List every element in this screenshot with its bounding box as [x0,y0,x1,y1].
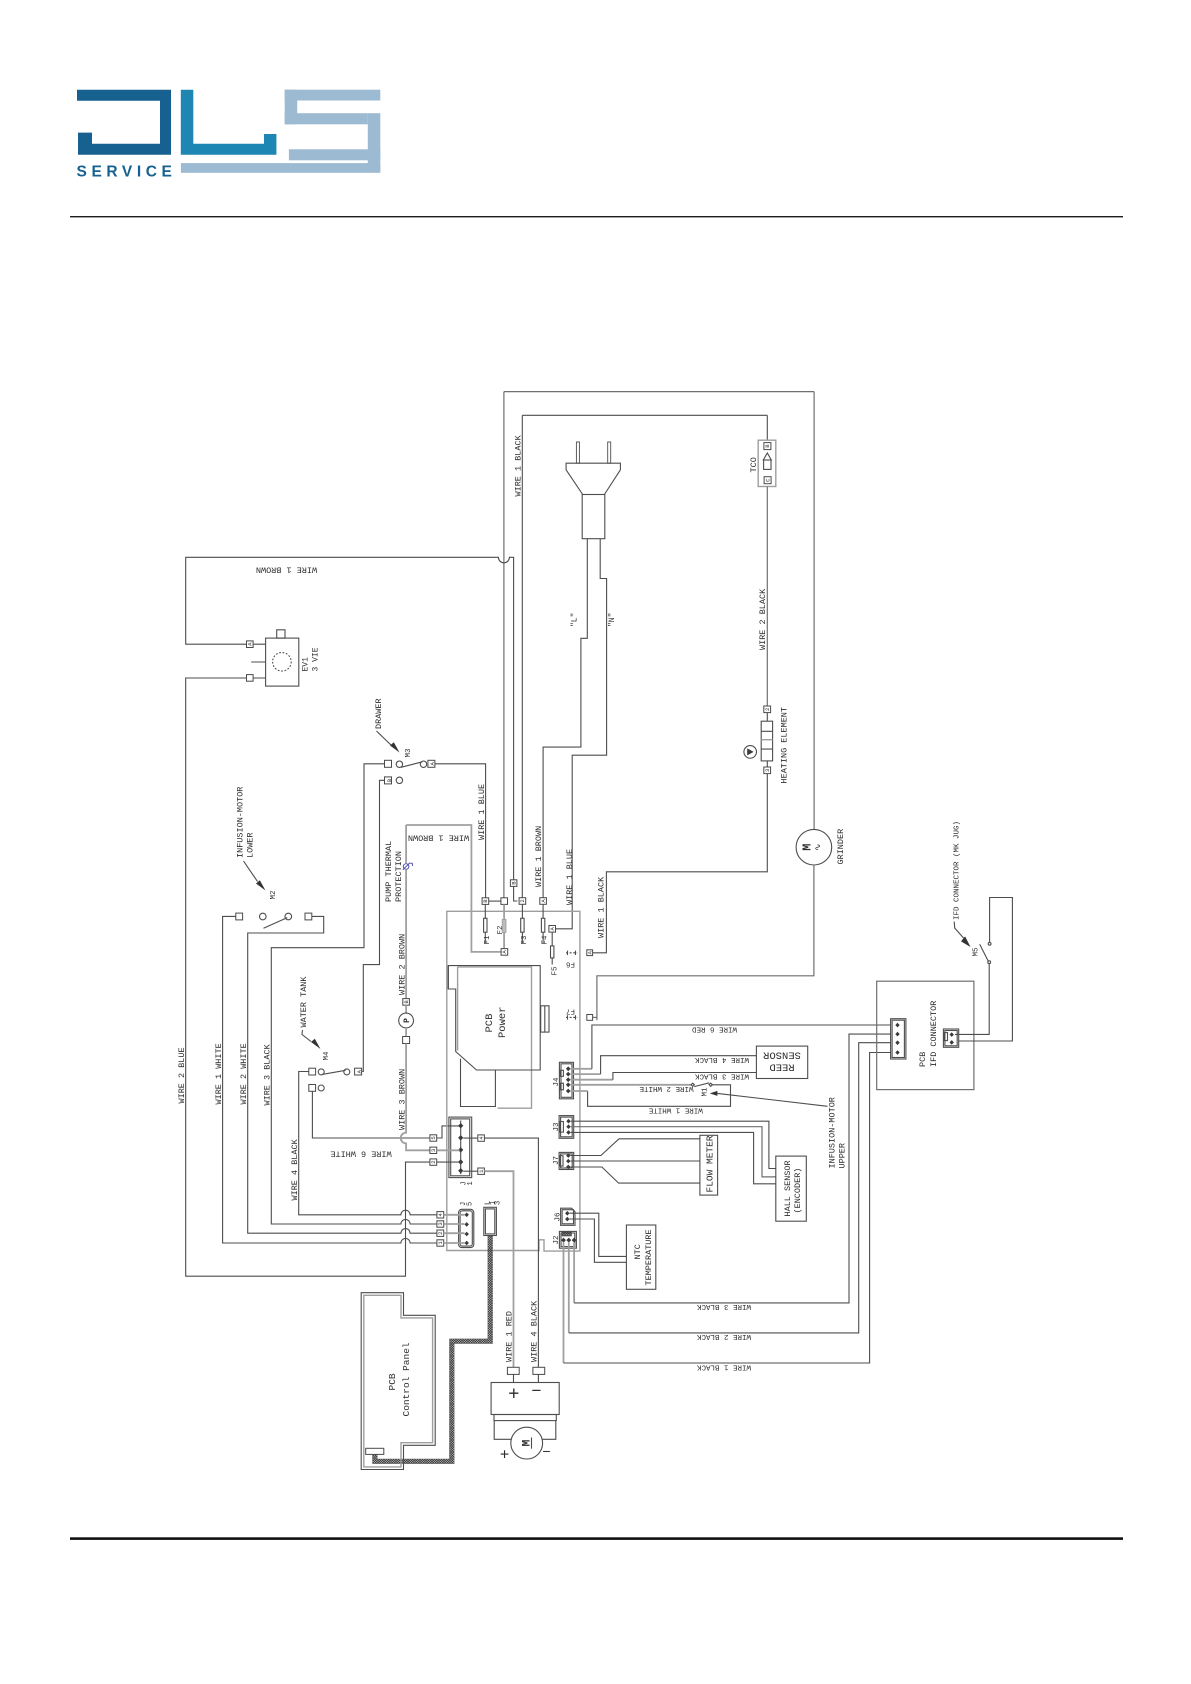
DLS logo glyph D [77,90,171,155]
svg-text:FLOW METER: FLOW METER [704,1135,715,1192]
svg-text:J7: J7 [553,1156,561,1165]
svg-text:WIRE 6 WHITE: WIRE 6 WHITE [330,1149,391,1159]
connector J2 [553,1231,577,1248]
fuse F5 [551,932,553,964]
svg-text:3: 3 [430,1149,437,1152]
svg-text:(ENCODER): (ENCODER) [793,1168,803,1214]
svg-text:WIRE 4 BLACK: WIRE 4 BLACK [694,1055,749,1063]
svg-text:WIRE 1 BROWN: WIRE 1 BROWN [256,565,317,575]
DLS logo glyph L [181,90,277,155]
terminal B above pump [403,999,410,1006]
svg-text:WIRE 1 BLACK: WIRE 1 BLACK [514,434,524,496]
svg-text:WIRE 2 BLACK: WIRE 2 BLACK [758,588,768,650]
svg-text:TCO: TCO [749,457,759,472]
svg-text:2: 2 [519,899,526,902]
choke L13 [484,1201,503,1236]
svg-text:NTC: NTC [633,1244,643,1259]
boxed 4/3/2/1 terminals [437,1212,444,1218]
fuse F1 terminal B [482,898,489,905]
svg-text:+: + [500,1447,509,1464]
mains square terminal [501,898,508,905]
wire M4 lower to J1-5 (WIRE 6 WHITE) [312,1091,430,1138]
battery terminal WIRE 4 BLACK [533,1367,545,1374]
svg-text:LOWER: LOWER [246,832,256,858]
wire N from plug to F5 [555,539,606,929]
svg-text:WIRE 1 WHITE: WIRE 1 WHITE [214,1043,224,1104]
connector J7 [553,1152,574,1169]
svg-text:J3: J3 [553,1122,561,1132]
svg-text:5: 5 [467,1202,475,1206]
svg-text:2: 2 [764,708,771,711]
motor M dc [500,1427,551,1463]
svg-text:F2: F2 [497,925,505,934]
svg-text:TEMPERATURE: TEMPERATURE [644,1229,654,1285]
wire M4 upper-left to J5-4 (WIRE 4 BLACK) [299,1072,437,1215]
svg-text:SENSOR: SENSOR [762,1049,801,1061]
svg-text:3: 3 [495,1201,503,1205]
fuse F3 [521,904,523,943]
PCB control panel [361,1293,435,1470]
fuse F5 terminal A [549,926,556,933]
IFD 4-pin connector [891,1019,906,1059]
outer mains box right vertical (to grinder) [813,392,815,830]
battery block [491,1381,559,1421]
hall sensor (encoder) box [776,1156,807,1221]
svg-text:WIRE 1 BROWN: WIRE 1 BROWN [408,833,469,843]
IFD 2-pin connector [943,1029,958,1047]
heating element [744,706,790,784]
svg-text:INFUSION-MOTOR: INFUSION-MOTOR [828,1097,838,1168]
svg-text:M2: M2 [270,890,278,899]
PCB Power block [448,966,549,1109]
braided cable to control panel [375,1236,490,1462]
connector J6 [555,1208,576,1225]
svg-text:F7: F7 [566,1007,575,1015]
outer mains box left vertical (to fuse row square) [503,392,505,898]
leader to M3 [377,731,392,746]
svg-text:WIRE 2 BLACK: WIRE 2 BLACK [696,1332,751,1340]
svg-text:WIRE 2 BROWN: WIRE 2 BROWN [397,934,407,995]
svg-text:"N": "N" [608,613,617,627]
wire J4-1 to IFD pin1 (WIRE 6 RED) [571,1068,592,1070]
svg-text:2: 2 [430,1160,437,1163]
svg-text:INFUSION-MOTOR: INFUSION-MOTOR [236,787,246,858]
leader to M4 [302,1030,311,1042]
wire M3 A to F1 (WIRE 1 BLUE) [435,764,486,898]
fuse F7 (dashed) [566,1016,577,1018]
svg-text:WIRE 1 RED: WIRE 1 RED [505,1311,515,1362]
svg-text:WIRE 1 BROWN: WIRE 1 BROWN [534,826,544,887]
TCO [749,440,776,486]
fuse F3 terminal 2 [519,898,526,905]
wire EV1 A to fuse-row B terminal (WIRE 1 BROWN, hops mains left) [186,557,514,880]
svg-text:5: 5 [430,1136,437,1139]
wire F7 to grinder [593,1016,597,1018]
svg-text:REED: REED [769,1061,794,1073]
svg-text:HEATING ELEMENT: HEATING ELEMENT [780,707,790,784]
mains plug [566,442,620,539]
connector J3 [553,1116,574,1139]
reed sensor box [756,1046,807,1078]
leader to M2 [244,861,258,882]
boxed 3 terminal [430,1147,437,1153]
svg-text:WIRE 4 BLACK: WIRE 4 BLACK [530,1300,540,1362]
svg-text:EV1: EV1 [302,657,311,672]
wires battery to motor [494,1421,556,1440]
inner mains box left vertical (to F3 terminal) [521,415,523,897]
top rule [70,216,1123,217]
terminal A of F6 [587,950,593,956]
boxed 1 terminal (to battery +) [478,1168,485,1174]
svg-text:WIRE 1 BLUE: WIRE 1 BLUE [565,849,575,905]
connector J4 [553,1062,574,1099]
inner mains box top [522,414,767,416]
arrow to M1 [710,1091,718,1096]
svg-text:WIRE 2 BLUE: WIRE 2 BLUE [177,1047,187,1103]
terminal B above F3 [510,880,517,887]
svg-text:1: 1 [467,1181,475,1185]
svg-text:2: 2 [437,1232,444,1235]
wire L from plug to F4 [543,539,587,898]
bottom rule [70,1537,1123,1540]
wire J4-3 to reed (WIRE 3 BLACK) [571,1079,613,1081]
svg-text:J6: J6 [555,1212,563,1222]
svg-text:M5: M5 [973,947,981,957]
pump wire to J1-3 (WIRE 3 BROWN, hops WIRE 6 WHITE) [401,1044,430,1151]
svg-text:GRINDER: GRINDER [836,829,846,865]
svg-text:−: − [532,1381,542,1400]
wires J6 to NTC [570,1213,627,1256]
fuse F4 terminal A [540,898,547,905]
svg-text:WIRE 1 BLACK: WIRE 1 BLACK [597,876,607,938]
svg-text:WIRE 4 BLACK: WIRE 4 BLACK [290,1138,300,1200]
terminal A below F2 [501,949,508,956]
boxed 5 terminal [430,1135,437,1141]
fuse F4 [542,904,544,943]
switch M4 water tank [309,1068,363,1091]
connector J5 [459,1202,475,1248]
fuse F2 (grey) [503,904,505,948]
svg-text:WIRE 1 BLACK: WIRE 1 BLACK [696,1362,751,1370]
svg-text:+: + [508,1384,519,1405]
wire J4-4 through M1 (WIRE 2 WHITE) [571,1084,693,1086]
svg-text:3: 3 [437,1222,444,1225]
leader to M5 [954,922,965,941]
wire grinder to F7 [597,865,814,1020]
wires J2 to PCB IFD (WIRE 3/2/1 BLACK) [564,1243,575,1363]
svg-text:F4: F4 [542,935,550,945]
svg-text:J2: J2 [553,1235,561,1244]
svg-text:PCB: PCB [484,1014,496,1033]
svg-text:F5: F5 [552,966,560,976]
wire M3 B to M4 A [362,780,384,1071]
boxed 2 terminal [430,1159,437,1165]
svg-text:PCB: PCB [918,1052,928,1067]
connector J1 [449,1117,475,1185]
svg-text:WIRE 3 BLACK: WIRE 3 BLACK [694,1072,749,1080]
battery terminal WIRE 1 RED [507,1367,519,1374]
svg-text:UPPER: UPPER [838,1143,848,1169]
DLS logo glyph S [285,90,381,172]
svg-text:PCB: PCB [387,1373,398,1390]
wire J4-2 to reed (WIRE 4 BLACK) [571,1073,601,1075]
svg-text:PUMP THERMAL: PUMP THERMAL [384,841,394,902]
grinder motor M [796,829,846,865]
svg-text:J4: J4 [553,1077,561,1087]
wire TCO to heating element (WIRE 2 BLACK) [766,487,768,707]
svg-text:M4: M4 [323,1051,331,1061]
svg-text:M3: M3 [405,748,413,758]
wire M2 right to J5-2 (WIRE 2 WHITE) [248,916,437,1233]
outer mains box top [504,391,814,393]
wire pump feed from F2 (WIRE 2 BROWN / WIRE 1 BROWN) [406,825,501,952]
pump P [405,1005,407,1013]
svg-text:WATER TANK: WATER TANK [299,976,309,1028]
fuse F6 (dashed) [566,952,577,954]
wire M1 return to J4-5 (WIRE 1 WHITE) [588,1085,731,1107]
EV1 valve [247,630,321,686]
svg-text:PROTECTION: PROTECTION [394,851,404,902]
svg-text:3 VIE: 3 VIE [312,647,321,671]
wires J3 to hall sensor [571,1121,776,1168]
svg-text:WIRE 3 BLACK: WIRE 3 BLACK [263,1043,273,1105]
svg-text:F3: F3 [521,935,529,945]
pump thermal protection symbol [403,863,413,870]
svg-text:DRAWER: DRAWER [374,698,384,729]
wire M3 left pole to WIRE 3 BLACK column [271,764,437,1224]
svg-text:WIRE 1 BLUE: WIRE 1 BLUE [477,784,487,840]
svg-text:SERVICE: SERVICE [77,164,177,181]
wires M5 to IFD 2-pin connector [959,898,1013,1042]
terminal square of F7 [587,1015,593,1021]
svg-text:3: 3 [764,769,771,772]
svg-text:WIRE 6 RED: WIRE 6 RED [692,1024,738,1032]
boxed 4 terminal (to battery -) [478,1135,485,1141]
wires J7 to flow meter [571,1139,700,1156]
pump wire down through thermal protection [405,825,407,999]
svg-text:F6: F6 [566,960,576,968]
fuse F1 [484,904,486,943]
link B to mains square [489,900,501,902]
PCB power board outline [447,911,580,1251]
svg-text:P: P [403,1018,412,1023]
svg-text:HALL SENSOR: HALL SENSOR [783,1160,793,1216]
svg-text:"L": "L" [571,613,580,627]
svg-text:WIRE 3 BROWN: WIRE 3 BROWN [397,1069,407,1130]
logo underline bar [181,163,380,173]
svg-text:Power: Power [497,1006,509,1038]
svg-text:WIRE 1 WHITE: WIRE 1 WHITE [648,1105,703,1113]
svg-text:IFD CONNECTOR: IFD CONNECTOR [929,1001,939,1067]
switch M2 infusion-motor lower [236,913,312,928]
svg-text:Control Panel: Control Panel [401,1342,412,1416]
svg-text:F1: F1 [484,935,492,945]
switch M1 infusion motor upper [691,1083,712,1097]
svg-text:WIRE 2 WHITE: WIRE 2 WHITE [639,1084,694,1092]
svg-text:IFD CONNECTOR (MK JUG): IFD CONNECTOR (MK JUG) [954,821,962,920]
svg-text:WIRE 3 BLACK: WIRE 3 BLACK [696,1302,751,1310]
wire heater bottom to F6 (WIRE 1 BLACK) [592,774,767,953]
flow meter box [700,1135,718,1195]
svg-text:−: − [542,1443,550,1459]
svg-text:M1: M1 [702,1087,710,1097]
switch M5 [980,942,991,963]
inner mains box right stub to TCO [766,415,768,440]
wire M2 left to J5-1 (WIRE 1 WHITE) [223,916,437,1243]
switch M3 drawer [385,760,437,784]
svg-text:∿: ∿ [814,843,824,851]
wire EV1 lower terminal to J1-2 (WIRE 2 BLUE) [186,678,430,1276]
PCB IFD connector board [877,981,974,1089]
svg-text:WIRE 2 WHITE: WIRE 2 WHITE [239,1043,249,1104]
NTC temperature box [626,1225,655,1289]
